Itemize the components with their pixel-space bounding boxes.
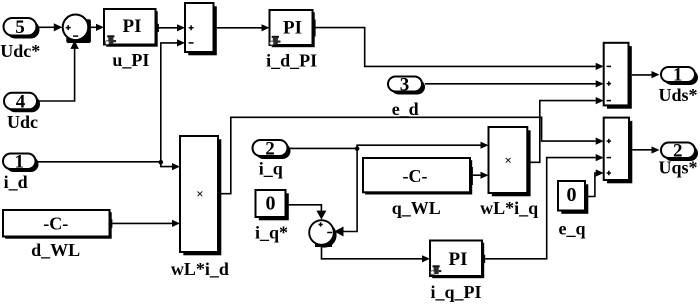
svg-text:i_q_PI: i_q_PI <box>430 282 481 302</box>
svg-text:wL*i_d: wL*i_d <box>171 259 229 279</box>
output port 2 (Uqs*) <box>661 141 698 162</box>
wire i_d_PI to S4 input 1 <box>316 28 604 70</box>
svg-text:×: × <box>504 153 511 168</box>
sum block S2 (rect +-) <box>185 3 217 55</box>
wire S5 to out2 <box>632 146 659 153</box>
wire product wL*i_d to S5 plus <box>218 117 604 193</box>
svg-text:PI: PI <box>449 249 468 270</box>
svg-text:Udc*: Udc* <box>0 41 40 61</box>
wire u_PI to S2 <box>159 24 185 31</box>
wire product wL*i_q to S4 input 3 <box>527 97 603 162</box>
PI block i_d_PI <box>270 10 316 47</box>
svg-text:0: 0 <box>266 193 276 215</box>
svg-text:PI: PI <box>283 17 302 38</box>
output port 1 (Uds*) <box>661 65 698 86</box>
svg-text:-C-: -C- <box>43 214 68 234</box>
svg-text:Udc: Udc <box>7 112 38 132</box>
wire in3 (e_d) to S4 input 2 <box>425 80 604 87</box>
wire i_d branch up to S2 minus <box>161 39 185 162</box>
wire e_q 0 to S5 input 3 <box>588 169 604 196</box>
input port 2 (i_q) <box>253 138 291 159</box>
svg-text:3: 3 <box>400 74 410 95</box>
wire in2 (i_q) to product wL*i_q <box>288 142 489 151</box>
i_d_PI content icon <box>270 36 281 45</box>
product block wL*i_q <box>489 127 531 196</box>
PI block i_q_PI <box>430 241 485 279</box>
wire S1 to u_PI <box>89 24 104 31</box>
svg-text:PI: PI <box>123 16 142 37</box>
svg-text:Uqs*: Uqs* <box>658 157 697 177</box>
constant -C- q_WL <box>363 158 473 195</box>
svg-text:e_d: e_d <box>392 99 419 119</box>
svg-text:1: 1 <box>15 152 25 173</box>
sum junction S1 (circle) <box>63 14 91 43</box>
wire in5 to S1 <box>39 23 63 31</box>
wire S2 to i_d_PI <box>217 24 270 31</box>
wire in1 (i_d) to product <box>36 160 181 170</box>
svg-text:4: 4 <box>16 91 26 112</box>
input port 3 (e_d) <box>388 74 425 95</box>
PI block u_PI <box>104 9 159 47</box>
product block wL*i_d <box>180 136 221 255</box>
wire q_WL to product wL*i_q <box>473 172 489 179</box>
wire d_WL to product <box>112 220 180 227</box>
svg-text:i_d: i_d <box>4 172 28 192</box>
svg-text:5: 5 <box>15 17 25 38</box>
constant 0 i_q* <box>256 190 289 220</box>
svg-text:u_PI: u_PI <box>112 50 149 70</box>
input port 1 (i_d) <box>3 152 39 173</box>
input port 5 (Udc*) <box>4 17 40 39</box>
wire S3 to i_q_PI <box>322 246 431 262</box>
wire in4 up to S1 bottom <box>39 40 79 101</box>
svg-text:wL*i_q: wL*i_q <box>480 198 538 218</box>
sum block S5 (right bottom, + - +) <box>604 118 633 184</box>
constant -C- d_WL <box>3 210 112 239</box>
svg-text:2: 2 <box>265 138 275 159</box>
constant 0 e_q <box>558 181 588 214</box>
svg-text:i_q*: i_q* <box>255 222 288 242</box>
wire S4 to out1 <box>632 71 660 78</box>
svg-text:e_q: e_q <box>559 219 586 239</box>
svg-text:i_q: i_q <box>259 158 283 178</box>
svg-text:1: 1 <box>673 65 683 86</box>
svg-text:d_WL: d_WL <box>31 240 80 260</box>
svg-text:0: 0 <box>567 184 577 206</box>
svg-text:Uds*: Uds* <box>658 85 697 105</box>
svg-text:i_d_PI: i_d_PI <box>266 50 317 70</box>
wire i_q* 0 to S3 top <box>288 205 326 220</box>
svg-text:×: × <box>196 186 203 201</box>
sum block S4 (right top, - + -) <box>604 43 632 109</box>
wire i_q_PI to S5 minus <box>485 154 604 259</box>
u_PI content icon <box>105 35 116 44</box>
input port 4 (Udc) <box>4 91 40 112</box>
svg-text:q_WL: q_WL <box>392 198 441 218</box>
sum junction S3 (circle) <box>309 220 336 247</box>
svg-text:-C-: -C- <box>403 166 428 186</box>
wire i_q branch down to S3 right <box>334 148 357 236</box>
i_q_PI content icon <box>431 265 442 274</box>
